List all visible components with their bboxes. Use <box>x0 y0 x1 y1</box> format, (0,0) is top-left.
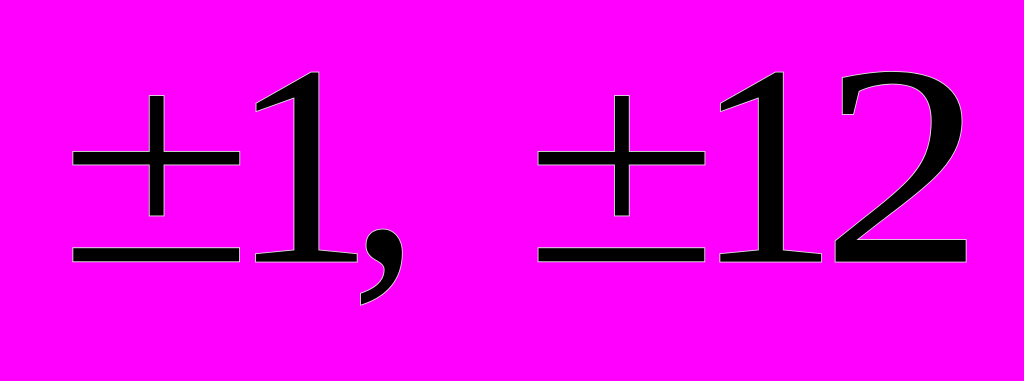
black ink pass <box>73 72 965 305</box>
white anti-alias halo pass <box>73 72 965 305</box>
